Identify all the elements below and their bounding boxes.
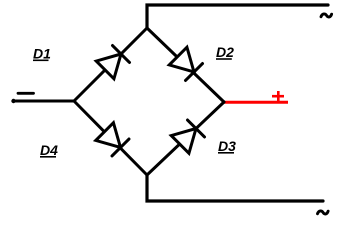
wire left lead (negative DC terminal to node L) — [11, 99, 74, 103]
diode D2 (top node to right node) — [169, 47, 203, 81]
svg-text:D4: D4 — [40, 142, 58, 158]
wire red positive lead (node R to plus terminal) — [224, 101, 288, 104]
wire arm B to R — [147, 102, 224, 175]
diode D3 (bottom node to right node) — [171, 120, 205, 154]
svg-text:D1: D1 — [33, 45, 51, 61]
AC tilde bottom terminal — [318, 211, 329, 214]
wire bottom lead (node B down and right to AC terminal) — [147, 175, 323, 201]
svg-text:D2: D2 — [216, 44, 234, 60]
label D4 — [40, 142, 58, 158]
wire arm T to R — [147, 28, 224, 102]
AC tilde top terminal — [321, 14, 332, 17]
diode D4 (left node to bottom node) — [96, 123, 130, 157]
minus terminal symbol — [18, 92, 34, 95]
wire top lead (node T up and right to AC terminal) — [147, 5, 328, 28]
wire arm L to B — [74, 101, 147, 175]
label D3 — [218, 138, 236, 154]
label D1 — [33, 45, 51, 61]
wire arm L to T — [74, 28, 147, 101]
label D2 — [216, 44, 234, 60]
plus terminal symbol (red) — [272, 91, 284, 102]
diode D1 (left node to top node) — [96, 45, 130, 79]
svg-text:D3: D3 — [218, 138, 236, 154]
